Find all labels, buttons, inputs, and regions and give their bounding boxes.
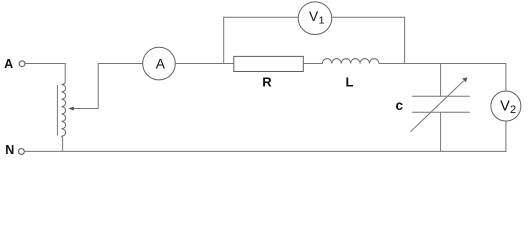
svg-text:2: 2 (510, 104, 516, 116)
wire from terminal A to variac top (25, 64, 65, 82)
variac winding T1 (61, 82, 65, 139)
voltmeter V2 (491, 91, 521, 121)
wire inductor to right edge (379, 63, 506, 65)
svg-text:N: N (5, 143, 14, 157)
terminal A (19, 61, 25, 67)
wire N bottom rail (24, 150, 506, 152)
resistor R (234, 56, 303, 89)
svg-text:R: R (262, 75, 272, 90)
variac core bar (56, 85, 58, 136)
voltmeter V1 (298, 2, 332, 35)
wire ammeter to resistor (175, 63, 234, 65)
ammeter A1 (143, 47, 176, 80)
wire capacitor bottom to N line (440, 112, 442, 151)
node N label (5, 143, 14, 157)
svg-text:V: V (309, 9, 319, 24)
wire down to capacitor (440, 64, 442, 97)
wire V1 left branch (224, 17, 299, 63)
wire V1 right branch (332, 17, 405, 63)
node A label (4, 57, 13, 71)
wire wiper up to main line (97, 64, 99, 109)
capacitor c (variable) (410, 77, 469, 131)
svg-text:V: V (500, 99, 510, 115)
svg-text:A: A (156, 56, 166, 71)
svg-text:1: 1 (319, 15, 325, 27)
wire resistor to inductor (303, 63, 322, 65)
svg-text:L: L (346, 75, 354, 90)
wire variac bottom to N line (62, 138, 64, 151)
inductor L (322, 59, 379, 90)
svg-text:c: c (396, 98, 404, 113)
variac wiper arrow (68, 107, 98, 111)
terminal N (19, 149, 25, 155)
wire wiper to ammeter (98, 63, 143, 65)
svg-text:A: A (4, 57, 13, 71)
wire down to V2 (505, 63, 507, 91)
wire V2 bottom to N line (505, 121, 507, 152)
